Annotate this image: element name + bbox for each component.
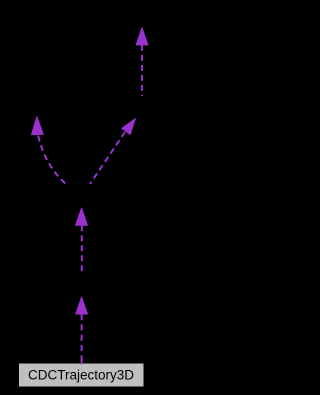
- wire edge node D to node E stem: [141, 45, 143, 96]
- wire edge node B to node A stem: [81, 225, 83, 273]
- wire edge m_trajectorySZ stem (box to node B): [81, 314, 83, 363]
- class box CDCTrajectory3D: [19, 363, 145, 387]
- arrowhead edge4 into node D: [122, 115, 140, 134]
- arrowhead edge5 into node E: [136, 28, 148, 45]
- svg-text:CDCTrajectory3D: CDCTrajectory3D: [28, 368, 134, 383]
- arrowhead edge2 into node A: [76, 208, 88, 225]
- arrowhead edge1 into node B: [76, 297, 88, 314]
- arrowhead edge3 into node C: [31, 116, 43, 134]
- wire diagonal edge node A to node D (right): [90, 132, 125, 184]
- wire dash stub on box border: [81, 362, 83, 365]
- wire curved edge node A to node C (left): [38, 136, 67, 186]
